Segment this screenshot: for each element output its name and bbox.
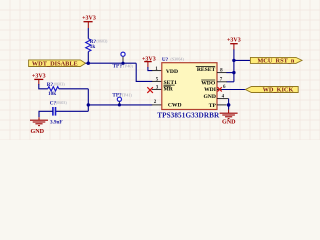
no-ERC cross on MR	[147, 87, 153, 93]
junction at TP? (top)	[121, 62, 124, 65]
junction at port branch	[232, 59, 235, 62]
wire +3V3 down to RESET net	[233, 49, 235, 81]
resistor R? 10k (horizontal)	[48, 87, 59, 91]
wire resistor to WDT_DISABLE net	[87, 52, 89, 64]
port MCU_RST_n	[250, 57, 302, 64]
svg-text:(0603): (0603)	[97, 39, 109, 44]
svg-text:TPS3851G33DRBR: TPS3851G33DRBR	[157, 111, 220, 119]
wire CWD row	[88, 104, 152, 106]
power +3V3 (left, above R? 10k)	[32, 73, 46, 84]
wire to MCU_RST_n port	[234, 59, 251, 61]
component body	[162, 63, 217, 110]
pin 2 CWD stub	[152, 104, 162, 106]
svg-text:(0603): (0603)	[56, 100, 68, 105]
svg-text:MCU_RST_n: MCU_RST_n	[257, 58, 295, 65]
pin 8 RESET stub	[217, 72, 227, 74]
svg-text:+3V3: +3V3	[227, 38, 241, 44]
svg-text:+3V3: +3V3	[82, 15, 96, 21]
svg-text:VDD: VDD	[166, 69, 178, 75]
junction at TP? (bottom)	[118, 103, 121, 106]
pin TP stub	[217, 104, 227, 106]
wire corner down to SET1	[136, 63, 152, 81]
svg-text:GND: GND	[222, 119, 236, 125]
svg-text:GND: GND	[31, 129, 45, 135]
svg-text:+3V3: +3V3	[32, 73, 46, 79]
svg-text:GND: GND	[203, 94, 215, 100]
wire WDI to WD_KICK port	[222, 89, 246, 91]
svg-text:RESET: RESET	[197, 67, 216, 73]
svg-text:WDT_DISABLE: WDT_DISABLE	[32, 60, 78, 67]
test point TP? (top)	[113, 52, 134, 69]
pin 7 WDO stub	[217, 81, 227, 83]
svg-text:(S3064): (S3064)	[171, 57, 185, 62]
power +3V3 (above MCU_RST_n)	[227, 38, 241, 50]
wire column down to capacitor row	[87, 89, 89, 112]
wire R? 10k to column	[59, 88, 89, 90]
op IC U? TPS3851G33DRBR	[157, 57, 220, 120]
wire capacitor to GND	[39, 111, 53, 117]
wire capacitor row	[56, 110, 89, 112]
capacitor C? 3.9nF	[53, 107, 56, 116]
resistor R? 1k (vertical)	[86, 39, 91, 52]
test point TP? (bottom)	[112, 92, 132, 105]
svg-text:TP: TP	[209, 103, 217, 109]
pin 4 GND stub	[217, 98, 229, 100]
wire +3V3 to resistor R?	[87, 28, 89, 39]
power +3V3 (top, above R? 1k)	[82, 15, 96, 28]
junction at TP/GND	[227, 103, 231, 107]
svg-text:U?: U?	[162, 57, 169, 63]
wire pin 8 to column	[227, 72, 234, 74]
svg-text:3.9nF: 3.9nF	[50, 119, 63, 125]
pin 1 VDD stub	[152, 70, 162, 72]
svg-text:(TP41): (TP41)	[120, 92, 132, 97]
svg-text:WD_KICK: WD_KICK	[263, 87, 294, 94]
pin 6 WDI stub	[217, 89, 227, 91]
svg-text:WDI: WDI	[204, 87, 216, 93]
pin 5 SET1 stub	[152, 80, 162, 82]
wire +3V3 to VDD	[148, 67, 152, 71]
wire column corner to WDO	[227, 81, 234, 83]
power +3V3 (at VDD pin 1)	[142, 57, 156, 68]
port WDT_DISABLE	[29, 60, 86, 68]
svg-text:1k: 1k	[90, 44, 96, 50]
sheet background	[0, 0, 320, 140]
svg-text:R?: R?	[47, 82, 54, 88]
svg-text:(0603): (0603)	[54, 82, 66, 87]
wire +3V3 down to R? 10k	[39, 84, 48, 89]
port WD_KICK	[245, 87, 298, 94]
svg-text:MR: MR	[164, 86, 174, 92]
junction at R?/port	[87, 62, 90, 65]
junction at RESET	[232, 71, 235, 74]
ground (left)	[30, 117, 48, 135]
junction at CWD branch	[87, 103, 90, 106]
no-ERC cross on WDI	[218, 87, 222, 91]
svg-text:10k: 10k	[48, 91, 56, 97]
ground (under IC)	[220, 110, 238, 126]
wire pin 4 down to GND	[228, 99, 230, 110]
svg-text:CWD: CWD	[168, 103, 182, 109]
pin 3 MR stub (unconnected)	[152, 88, 162, 90]
wire WDT_DISABLE row	[86, 62, 137, 64]
svg-text:WDO: WDO	[201, 81, 216, 87]
